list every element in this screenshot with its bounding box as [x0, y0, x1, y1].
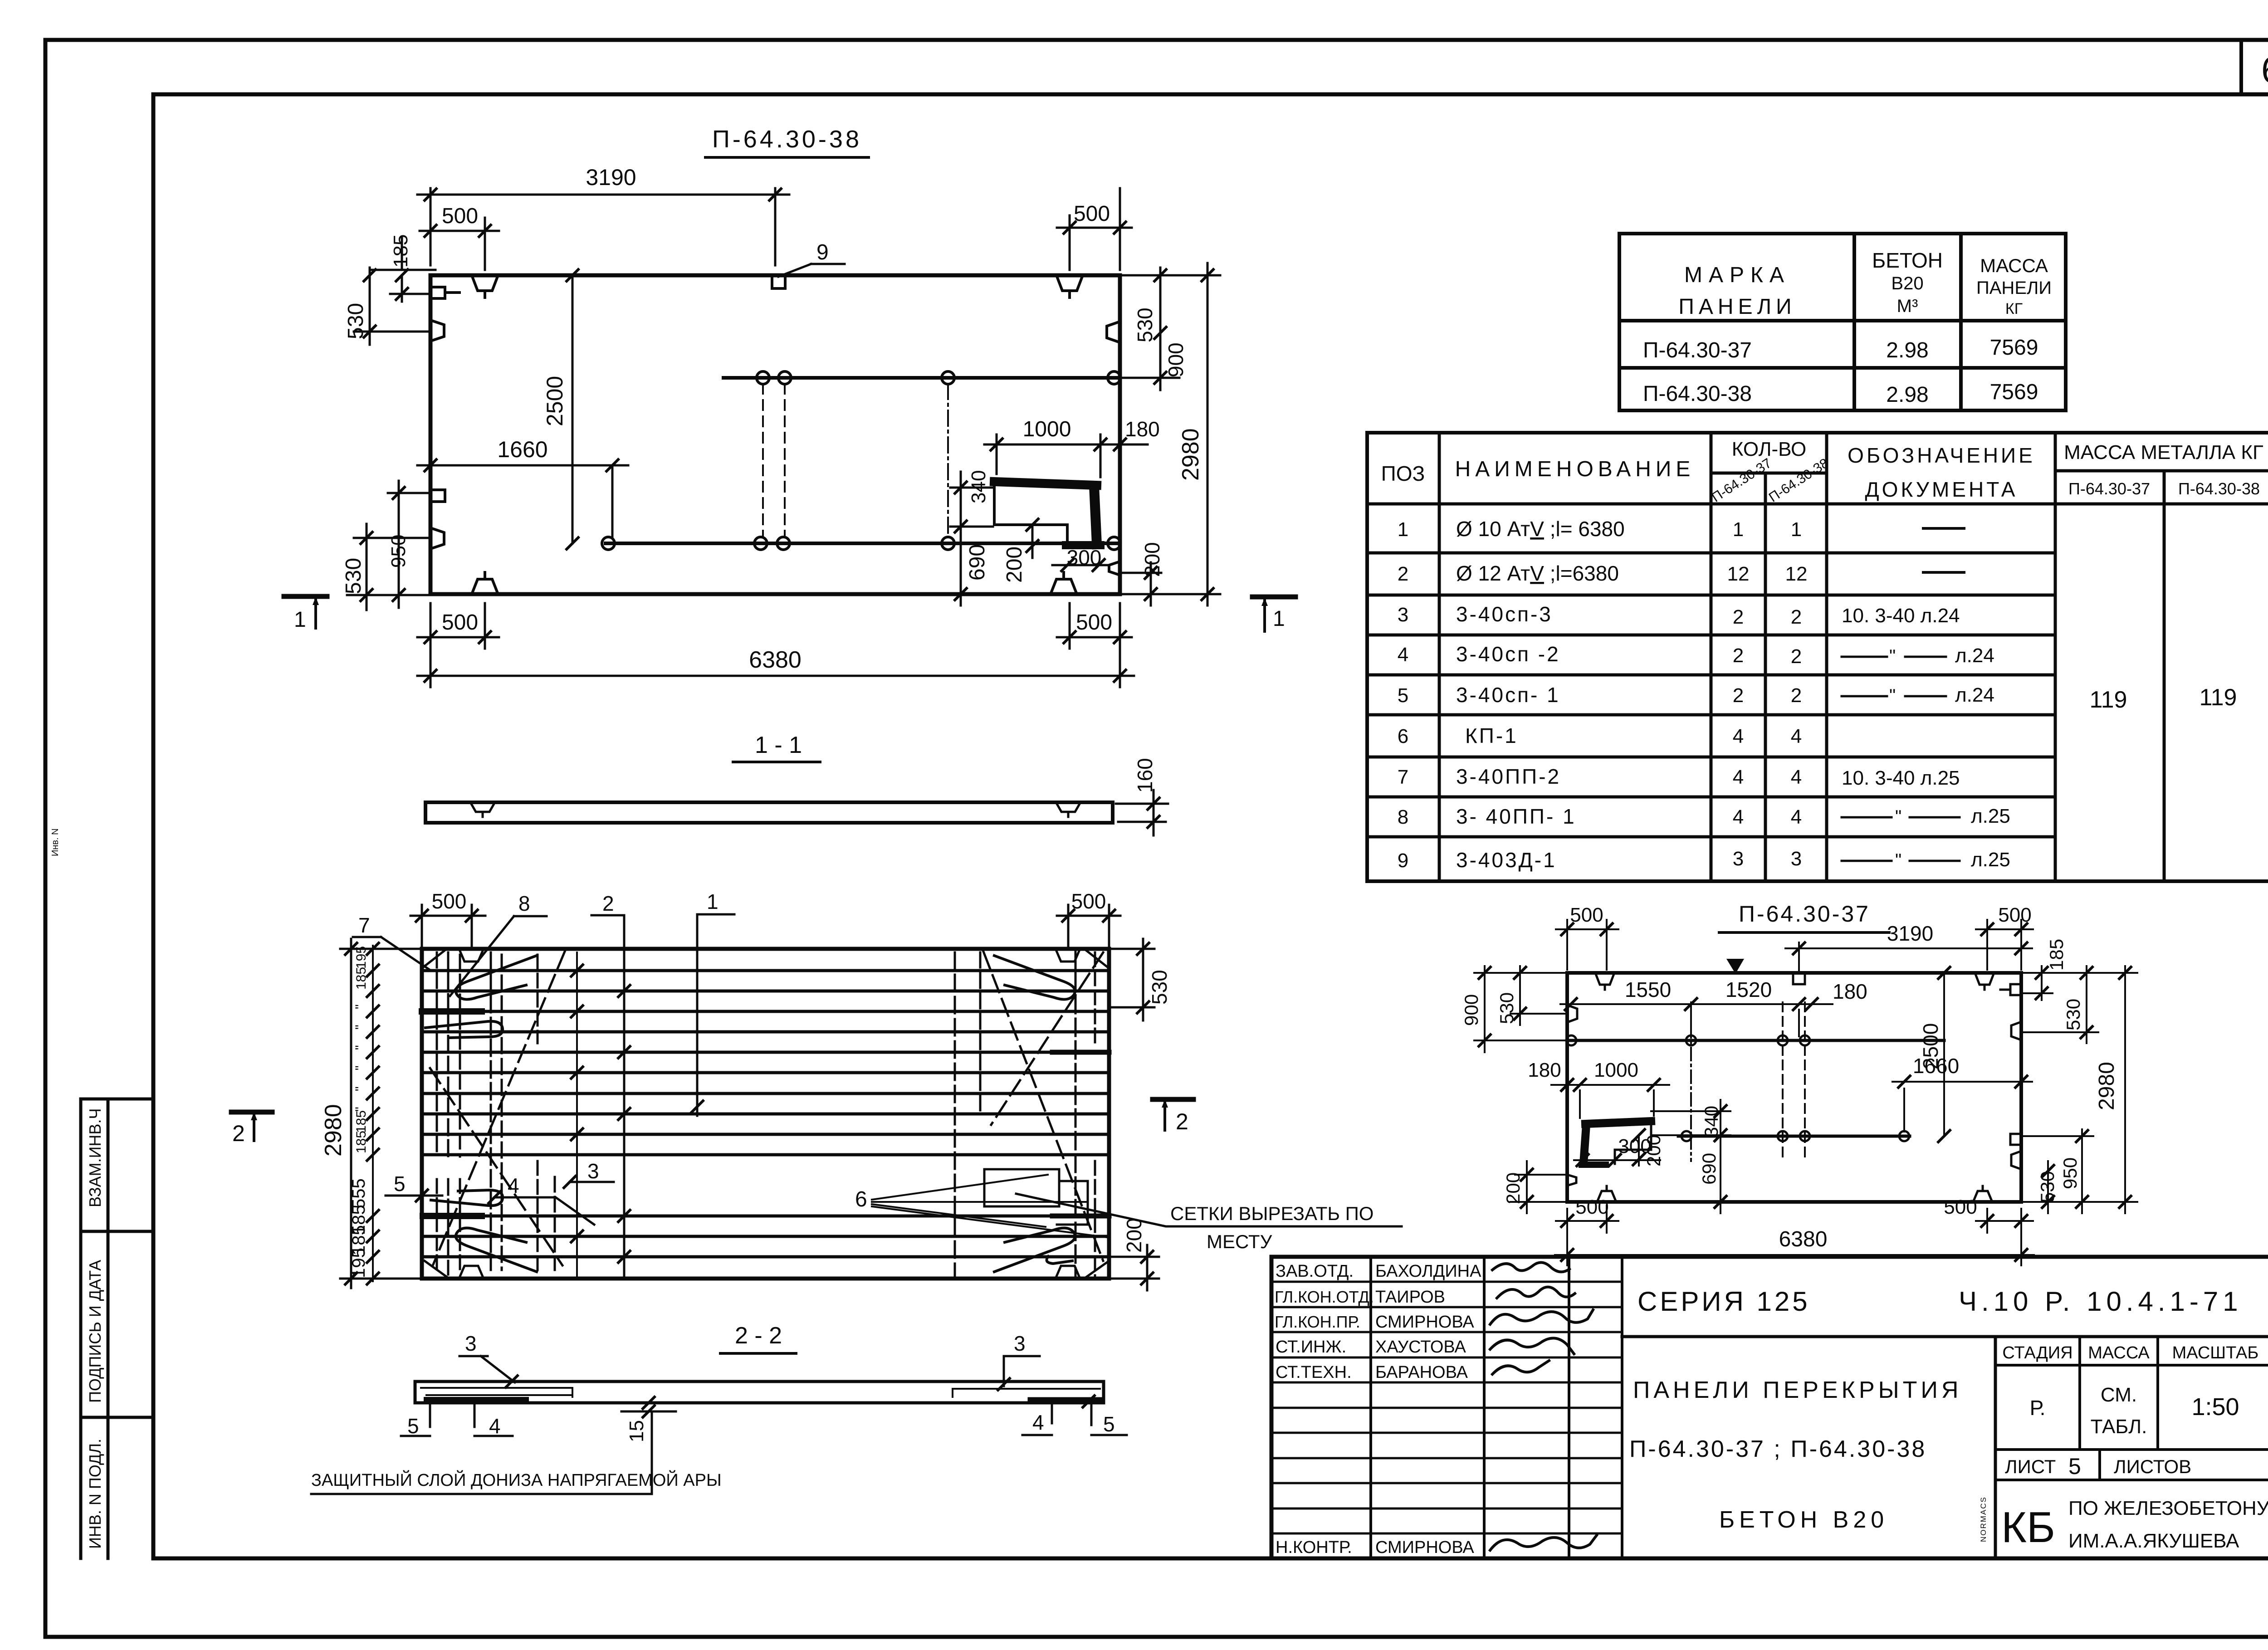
- svg-text:4: 4: [1733, 766, 1744, 788]
- svg-text:5: 5: [394, 1172, 406, 1196]
- strand line 7: [422, 1092, 1109, 1095]
- svg-text:4: 4: [1791, 766, 1802, 788]
- svg-text:3: 3: [1791, 848, 1802, 870]
- svg-text:КГ: КГ: [2005, 300, 2023, 317]
- svg-text:ПАНЕЛИ: ПАНЕЛИ: [1976, 278, 2052, 298]
- strand line 10: [422, 1153, 1109, 1157]
- svg-text:500: 500: [442, 610, 478, 635]
- svg-text:": ": [353, 1065, 368, 1070]
- tab on right edge upper: [2000, 984, 2021, 995]
- svg-text:200: 200: [1002, 547, 1026, 583]
- svg-text:КОЛ-ВО: КОЛ-ВО: [1732, 438, 1807, 460]
- lifting notch bottom-left: [459, 1266, 484, 1279]
- item 9 square notch at top centre: [772, 275, 785, 288]
- svg-text:МАССА МЕТАЛЛА КГ: МАССА МЕТАЛЛА КГ: [2064, 441, 2263, 464]
- dim 500 bottom-left: [417, 603, 499, 649]
- svg-text:2: 2: [1398, 563, 1408, 585]
- dim 2980 left: [340, 939, 422, 1288]
- svg-text:5: 5: [1398, 684, 1408, 707]
- svg-text:1550: 1550: [1625, 978, 1671, 1001]
- lifting notch top-right: [1056, 275, 1083, 298]
- svg-text:6380: 6380: [1779, 1227, 1828, 1251]
- svg-text:ГЛ.КОН.ПР.: ГЛ.КОН.ПР.: [1275, 1313, 1360, 1331]
- dim 340: [950, 472, 993, 540]
- svg-text:185: 185: [354, 1131, 369, 1153]
- svg-text:1: 1: [1733, 518, 1744, 541]
- panel cross-section bar: [425, 802, 1113, 823]
- svg-text:СТАДИЯ: СТАДИЯ: [2002, 1343, 2072, 1362]
- strand circles upper: [1566, 1035, 1810, 1045]
- dim 500 top-right: [1057, 188, 1132, 270]
- svg-text:3: 3: [1733, 848, 1744, 870]
- dim 690: [960, 540, 962, 605]
- svg-text:6: 6: [1398, 725, 1408, 747]
- strand line 11: [422, 1215, 1109, 1218]
- svg-text:": ": [353, 1025, 368, 1030]
- item 9 square notch top: [1793, 973, 1805, 984]
- svg-text:8: 8: [518, 892, 530, 915]
- svg-text:": ": [353, 1004, 368, 1009]
- svg-text:4: 4: [508, 1174, 519, 1197]
- svg-text:185: 185: [354, 1110, 369, 1133]
- step on right edge near bottom: [1109, 561, 1120, 575]
- svg-text:ХАУСТОВА: ХАУСТОВА: [1375, 1338, 1466, 1357]
- svg-text:900: 900: [1461, 994, 1482, 1026]
- dim 2500: [1943, 973, 1945, 1136]
- svg-text:ЗАВ.ОТД.: ЗАВ.ОТД.: [1276, 1262, 1354, 1281]
- step on left edge bottom: [1567, 1175, 1576, 1186]
- dim 2980 right: [2021, 966, 2137, 1213]
- svg-text:П-64.30-38: П-64.30-38: [1766, 455, 1832, 505]
- svg-text:2980: 2980: [2095, 1062, 2119, 1110]
- svg-text:СМИРНОВА: СМИРНОВА: [1375, 1313, 1474, 1332]
- strand circles lower: [602, 537, 1120, 550]
- svg-text:4: 4: [1398, 644, 1408, 666]
- svg-text:ОБОЗНАЧЕНИЕ: ОБОЗНАЧЕНИЕ: [1848, 444, 2035, 467]
- svg-text:2: 2: [1733, 606, 1744, 628]
- strand circles lower: [1681, 1131, 1909, 1141]
- svg-text:NORMACS: NORMACS: [1979, 1496, 1988, 1542]
- svg-text:119: 119: [2090, 687, 2127, 713]
- hook loop bottom-left b: [431, 1190, 503, 1206]
- embedded mesh left: [421, 1388, 572, 1397]
- strand line 3: [422, 1010, 1109, 1013]
- svg-text:2: 2: [1791, 645, 1802, 668]
- page number box: [2241, 40, 2268, 94]
- dim 6380 bottom: [1555, 1209, 2034, 1265]
- svg-text:П-64.30-38: П-64.30-38: [1643, 382, 1752, 406]
- notch in section left: [470, 802, 495, 817]
- svg-text:ГЛ.КОН.ОТД.: ГЛ.КОН.ОТД.: [1275, 1288, 1374, 1306]
- dim 500 bottom-right: [1057, 603, 1132, 649]
- dim 3190 top: [417, 188, 789, 265]
- dim 530 left top: [1510, 966, 1567, 1025]
- svg-text:ПАНЕЛИ: ПАНЕЛИ: [1678, 295, 1796, 319]
- svg-text:530: 530: [1496, 992, 1517, 1024]
- dim 300: [1574, 1159, 1660, 1161]
- svg-text:л.25: л.25: [1971, 849, 2010, 871]
- embedded mesh right: [953, 1389, 1100, 1397]
- dim 530 right top: [2021, 966, 2098, 1043]
- section mark 2 right: [1153, 1097, 1193, 1102]
- svg-text:500: 500: [1998, 904, 2031, 926]
- upper strand line: [723, 376, 1120, 380]
- dim chain 1550 1520 180: [1560, 1004, 1833, 1036]
- svg-text:Инв. N: Инв. N: [50, 828, 60, 856]
- svg-text:П-64.30-37: П-64.30-37: [2068, 479, 2150, 498]
- svg-text:180: 180: [1833, 980, 1867, 1003]
- svg-text:555: 555: [349, 1178, 369, 1209]
- section mark 1 right: [1252, 595, 1295, 600]
- section mark 2 left: [231, 1110, 272, 1115]
- svg-text:": ": [1889, 686, 1896, 706]
- panel cross-section bar: [415, 1382, 1104, 1403]
- dim 200 right bottom: [1109, 1245, 1159, 1290]
- svg-text:195: 195: [354, 946, 369, 969]
- signature rows: [1271, 1282, 1622, 1533]
- svg-text:200: 200: [1122, 1218, 1146, 1253]
- svg-text:9: 9: [1398, 849, 1408, 872]
- svg-text:3-40сп- 1: 3-40сп- 1: [1456, 683, 1560, 707]
- panel outline: [430, 275, 1120, 594]
- strand line 12: [422, 1235, 1109, 1238]
- svg-text:БЕТОН: БЕТОН: [1872, 249, 1943, 272]
- lifting notch bottom-right: [1056, 1266, 1080, 1279]
- dim 500 top-right: [1057, 905, 1120, 946]
- dim 15 protective layer: [642, 1396, 655, 1410]
- notch on right edge lower: [2011, 1151, 2021, 1169]
- svg-text:4: 4: [489, 1414, 501, 1438]
- panel outline: [1567, 973, 2021, 1202]
- lifting notch top-left: [459, 949, 484, 962]
- dim 1660: [1892, 1082, 2032, 1132]
- strand line 9: [422, 1133, 1109, 1136]
- svg-text:5: 5: [407, 1414, 419, 1438]
- svg-text:ТАБЛ.: ТАБЛ.: [2091, 1416, 2147, 1438]
- svg-text:900: 900: [1164, 342, 1188, 377]
- dim 200 mid cut: [1031, 525, 1034, 558]
- hook loop top-left a: [456, 956, 537, 999]
- svg-text:": ": [353, 1086, 368, 1091]
- svg-text:МАССА: МАССА: [2088, 1343, 2150, 1362]
- svg-text:СМ.: СМ.: [2101, 1384, 2137, 1406]
- strand line 13: [422, 1255, 1109, 1259]
- table outer: [1367, 433, 2268, 881]
- svg-text:690: 690: [1698, 1153, 1720, 1185]
- svg-text:950: 950: [387, 535, 410, 568]
- svg-text:9: 9: [816, 240, 829, 264]
- svg-text:2.98: 2.98: [1886, 383, 1928, 407]
- svg-text:М³: М³: [1897, 296, 1918, 316]
- svg-text:2.98: 2.98: [1886, 338, 1928, 362]
- svg-text:1: 1: [294, 608, 306, 632]
- svg-text:15: 15: [626, 1420, 648, 1442]
- svg-text:160: 160: [1133, 758, 1157, 793]
- dim 6380 bottom: [417, 603, 1134, 687]
- strand line 4: [422, 1030, 1109, 1034]
- svg-text:СЕРИЯ 125: СЕРИЯ 125: [1637, 1286, 1810, 1317]
- лист row: [1995, 1450, 2268, 1480]
- svg-text:3: 3: [587, 1159, 599, 1183]
- svg-text:180: 180: [1125, 417, 1160, 441]
- dash-dot vertical: [947, 384, 949, 537]
- svg-text:1:50: 1:50: [2191, 1393, 2239, 1421]
- dim 950 left bottom: [388, 481, 430, 608]
- upper notch on left edge: [430, 320, 444, 341]
- mesh verticals right group: [955, 951, 1095, 1277]
- svg-text:7569: 7569: [1990, 380, 2038, 404]
- svg-text:3: 3: [465, 1332, 477, 1355]
- section mark 1 left: [284, 594, 327, 599]
- svg-text:Ø 10 АтV ;l= 6380: Ø 10 АтV ;l= 6380: [1456, 517, 1625, 541]
- lifting notch bottom-right: [1051, 572, 1077, 594]
- svg-text:ИНВ. N ПОДЛ.: ИНВ. N ПОДЛ.: [86, 1439, 104, 1549]
- svg-text:4: 4: [1791, 806, 1802, 828]
- svg-text:3190: 3190: [1887, 922, 1933, 945]
- svg-text:ЛИСТОВ: ЛИСТОВ: [2114, 1456, 2191, 1477]
- svg-text:3-40сп -2: 3-40сп -2: [1456, 642, 1560, 666]
- dashed strand verticals: [763, 384, 785, 537]
- lower tab on left edge: [430, 490, 445, 502]
- lower notch on left edge: [430, 528, 444, 549]
- dim 185 right: [2021, 966, 2053, 1000]
- svg-text:530: 530: [2037, 1171, 2058, 1203]
- mesh verticals left group: [437, 952, 555, 1274]
- svg-text:ПОДПИСЬ И ДАТА: ПОДПИСЬ И ДАТА: [86, 1260, 104, 1403]
- dim 900 left: [1474, 966, 1567, 1052]
- svg-text:1: 1: [1398, 518, 1408, 541]
- dim 900 right: [1120, 349, 1179, 390]
- svg-text:БЕТОН В20: БЕТОН В20: [1719, 1507, 1888, 1533]
- top band series: [1622, 1335, 2268, 1338]
- corner cut detail (thick L mark, mirrored): [1585, 1121, 1651, 1124]
- notch on left edge: [1567, 1005, 1577, 1022]
- dim 200 mid: [1638, 1135, 1640, 1166]
- svg-text:1660: 1660: [497, 437, 547, 462]
- dim 530 950 bottom right: [2021, 1129, 2093, 1213]
- spacing labels: [353, 946, 369, 1153]
- dim 3190: [1785, 942, 2032, 971]
- svg-text:1: 1: [1791, 518, 1802, 541]
- svg-text:ЛИСТ: ЛИСТ: [2005, 1456, 2056, 1477]
- lower strand line: [606, 542, 1120, 545]
- level mark triangle: [1726, 959, 1744, 974]
- svg-text:2: 2: [602, 892, 614, 915]
- svg-text:ЗАЩИТНЫЙ СЛОЙ ДОНИЗА НАПРЯГАЕМ: ЗАЩИТНЫЙ СЛОЙ ДОНИЗА НАПРЯГАЕМОЙ АРЫ: [311, 1469, 722, 1490]
- dim 530 left bottom: [347, 524, 430, 610]
- svg-text:500: 500: [1074, 202, 1110, 226]
- strand line 5: [422, 1051, 1109, 1054]
- tab on right edge lower: [2010, 1134, 2021, 1145]
- thick mesh edge bars: [422, 1008, 482, 1015]
- svg-text:3: 3: [1014, 1332, 1026, 1355]
- svg-text:МАРКА: МАРКА: [1684, 263, 1790, 287]
- header lines: [1367, 471, 2268, 504]
- svg-text:500: 500: [1944, 1196, 1977, 1218]
- dashed diagonal braces right: [983, 952, 1103, 1261]
- svg-text:НАИМЕНОВАНИЕ: НАИМЕНОВАНИЕ: [1455, 457, 1695, 481]
- svg-text:1: 1: [707, 890, 719, 913]
- svg-text:3- 40ПП- 1: 3- 40ПП- 1: [1456, 805, 1576, 828]
- svg-text:л.24: л.24: [1955, 684, 1994, 706]
- notch on right edge: [1107, 322, 1120, 342]
- svg-text:П-64.30-37: П-64.30-37: [1739, 901, 1870, 927]
- panel outline: [422, 949, 1109, 1279]
- lifting notch top-right: [1975, 973, 1994, 990]
- svg-text:": ": [1895, 807, 1901, 827]
- svg-text:4: 4: [1791, 725, 1802, 747]
- notch on right edge upper: [2011, 1022, 2021, 1040]
- dashed diagonal braces left: [433, 952, 565, 1264]
- dim 500 bottom-right: [1976, 1209, 2033, 1233]
- svg-text:П-64.30-37: П-64.30-37: [1643, 338, 1752, 362]
- strand circles upper: [757, 371, 1120, 384]
- svg-text:МАССА: МАССА: [1980, 255, 2048, 276]
- note leader: [1016, 1194, 1402, 1226]
- upper tab on left edge: [430, 287, 459, 298]
- svg-text:1000: 1000: [1594, 1059, 1638, 1081]
- svg-text:500: 500: [432, 889, 467, 913]
- svg-text:500: 500: [1575, 1196, 1608, 1218]
- svg-text:3-40ПП-2: 3-40ПП-2: [1456, 765, 1561, 788]
- svg-text:П-64.30-38: П-64.30-38: [2178, 479, 2260, 498]
- svg-text:3190: 3190: [586, 165, 636, 190]
- lifting notch top-left: [472, 275, 498, 298]
- стадия масса масштаб header: [1995, 1337, 2268, 1450]
- strand line 8: [422, 1113, 1109, 1116]
- svg-text:7: 7: [1398, 766, 1408, 788]
- svg-text:2: 2: [1733, 684, 1744, 707]
- dim 500 bottom-left: [1556, 1206, 1618, 1233]
- svg-text:4: 4: [1032, 1411, 1044, 1434]
- verticals: [1439, 433, 2164, 881]
- svg-text:": ": [1895, 850, 1901, 870]
- row lines: [1367, 553, 2055, 837]
- svg-text:6380: 6380: [749, 647, 802, 673]
- svg-text:ПО ЖЕЛЕЗОБЕТОНУ: ПО ЖЕЛЕЗОБЕТОНУ: [2068, 1497, 2268, 1519]
- strand line 6: [422, 1071, 1109, 1074]
- svg-text:185: 185: [2046, 939, 2067, 971]
- strand line 1: [422, 969, 1109, 972]
- svg-text:530: 530: [344, 303, 368, 339]
- svg-text:ПАНЕЛИ ПЕРЕКРЫТИЯ: ПАНЕЛИ ПЕРЕКРЫТИЯ: [1633, 1377, 1962, 1403]
- dim 530 left top: [354, 268, 435, 345]
- 185 spacing chain line: [372, 946, 374, 1281]
- svg-text:П-64.30-38: П-64.30-38: [712, 126, 862, 153]
- svg-text:340: 340: [1701, 1106, 1722, 1137]
- svg-text:КП-1: КП-1: [1465, 724, 1518, 747]
- svg-text:МАСШТАБ: МАСШТАБ: [2172, 1343, 2259, 1362]
- svg-text:12: 12: [1727, 563, 1750, 585]
- corner diagonals: [422, 949, 1109, 1279]
- svg-text:": ": [353, 1045, 368, 1050]
- svg-text:СТ.ТЕХН.: СТ.ТЕХН.: [1276, 1363, 1352, 1382]
- svg-text:2 - 2: 2 - 2: [735, 1323, 782, 1349]
- svg-text:л.24: л.24: [1955, 644, 1994, 667]
- svg-text:СЕТКИ ВЫРЕЗАТЬ ПО: СЕТКИ ВЫРЕЗАТЬ ПО: [1170, 1203, 1374, 1224]
- signature columns: [1371, 1257, 1622, 1558]
- dim 185 left top: [390, 238, 430, 302]
- hook loop bottom-right: [994, 1228, 1075, 1272]
- svg-text:2: 2: [1733, 644, 1744, 667]
- svg-text:185: 185: [354, 967, 369, 990]
- dim 2500 vertical: [572, 275, 574, 543]
- svg-text:3: 3: [1398, 604, 1408, 626]
- dim 500 top-left: [420, 218, 499, 270]
- svg-text:ИМ.А.А.ЯКУШЕВА: ИМ.А.А.ЯКУШЕВА: [2068, 1530, 2239, 1552]
- upper strand line: [1567, 1039, 1944, 1042]
- svg-text:": ": [1889, 646, 1896, 666]
- svg-text:БАХОЛДИНА: БАХОЛДИНА: [1375, 1262, 1481, 1281]
- svg-text:ДОКУМЕНТА: ДОКУМЕНТА: [1865, 478, 2018, 501]
- svg-text:12: 12: [1785, 563, 1808, 585]
- svg-text:500: 500: [1071, 889, 1106, 913]
- hook loop top-right: [994, 956, 1075, 999]
- svg-text:185: 185: [390, 234, 412, 268]
- svg-text:1520: 1520: [1725, 978, 1772, 1001]
- dim 530 right top: [1109, 939, 1154, 1020]
- svg-text:6: 6: [2261, 49, 2268, 91]
- svg-text:1000: 1000: [1023, 417, 1071, 441]
- svg-text:300: 300: [1067, 546, 1102, 569]
- svg-text:П-64.30-37 ; П-64.30-38: П-64.30-37 ; П-64.30-38: [1629, 1436, 1926, 1462]
- svg-text:МЕСТУ: МЕСТУ: [1207, 1231, 1272, 1252]
- dim 160: [1116, 790, 1168, 835]
- svg-text:530: 530: [1133, 308, 1157, 342]
- left attribute strip: [81, 1099, 153, 1558]
- hook loop top-left b: [425, 1021, 503, 1038]
- svg-text:200: 200: [1140, 542, 1164, 577]
- svg-text:ТАИРОВ: ТАИРОВ: [1375, 1288, 1445, 1307]
- svg-text:5: 5: [2068, 1454, 2081, 1479]
- lifting notch bottom-left: [472, 572, 498, 594]
- svg-text:6: 6: [855, 1187, 867, 1211]
- svg-text:200: 200: [1502, 1172, 1524, 1204]
- lifting notch top-left: [1595, 973, 1614, 990]
- svg-text:500: 500: [1570, 904, 1603, 926]
- svg-text:530: 530: [342, 558, 366, 594]
- strand line 2: [422, 990, 1109, 993]
- dim 2980 right: [1120, 263, 1220, 605]
- svg-text:2: 2: [1791, 684, 1802, 707]
- svg-text:Ч.10 Р. 10.4.1-71: Ч.10 Р. 10.4.1-71: [1959, 1286, 2243, 1317]
- svg-text:л.25: л.25: [1971, 805, 2010, 827]
- small hook bottom right: [1046, 1256, 1072, 1264]
- lifting notch bottom-left: [1597, 1186, 1616, 1202]
- svg-text:500: 500: [1076, 610, 1112, 635]
- right columns divider: [1994, 1337, 1997, 1558]
- svg-text:2: 2: [1791, 606, 1802, 628]
- dim 300: [1052, 564, 1109, 566]
- lower strand line: [1678, 1135, 1910, 1138]
- table grid: [1619, 234, 2066, 410]
- dim 340 690: [1651, 1100, 1730, 1213]
- dim 200 bottom-left: [1510, 1161, 1567, 1213]
- svg-text:2980: 2980: [1178, 428, 1204, 481]
- svg-text:340: 340: [968, 470, 990, 503]
- dim 180 1000 bottom-left: [1551, 1085, 1669, 1118]
- dim 180 top of cut: [1109, 444, 1148, 446]
- svg-text:СТ.ИНЖ.: СТ.ИНЖ.: [1276, 1338, 1346, 1357]
- svg-text:3-403Д-1: 3-403Д-1: [1456, 848, 1557, 872]
- dim 530 right: [1120, 268, 1179, 349]
- svg-text:1: 1: [1273, 607, 1285, 631]
- svg-text:5: 5: [1103, 1412, 1115, 1436]
- svg-text:500: 500: [442, 204, 478, 228]
- svg-text:10. 3-40 л.24: 10. 3-40 л.24: [1842, 605, 1960, 627]
- mesh box item 6: [984, 1169, 1088, 1225]
- svg-text:2: 2: [232, 1121, 245, 1146]
